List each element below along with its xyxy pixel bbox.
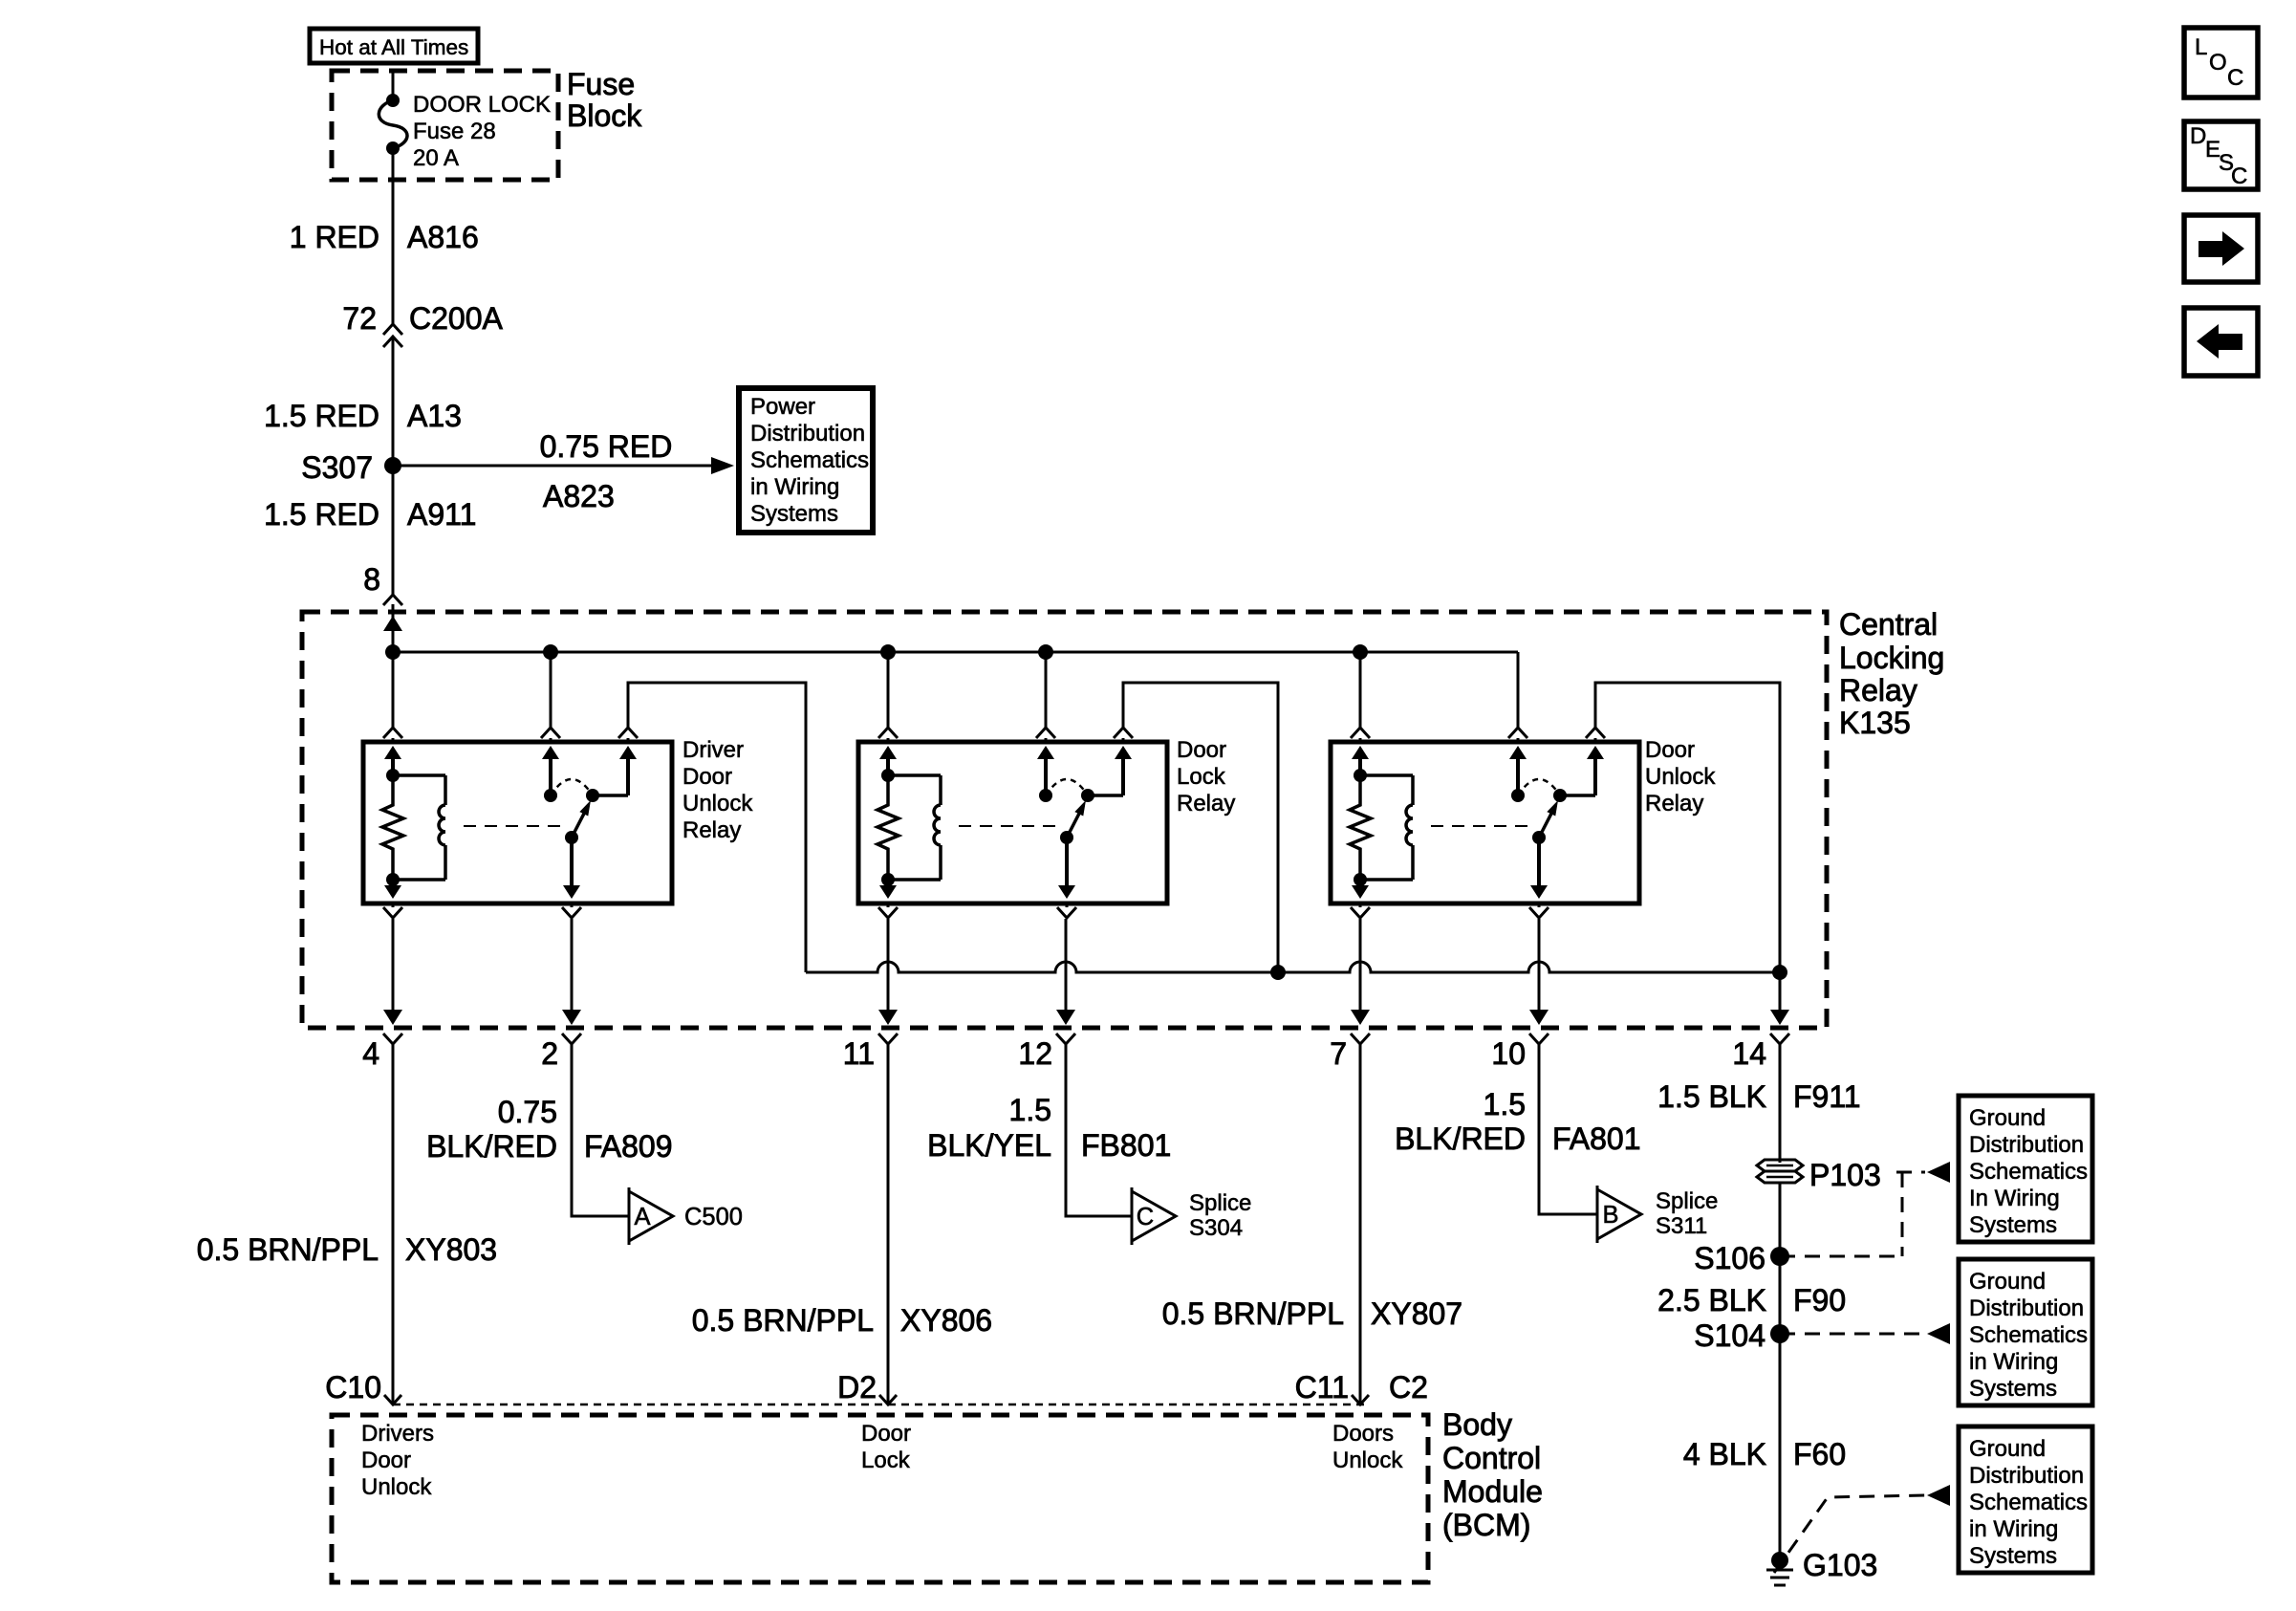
- svg-text:A13: A13: [407, 399, 462, 433]
- svg-text:2: 2: [541, 1036, 558, 1071]
- svg-text:in Wiring: in Wiring: [1969, 1516, 2058, 1542]
- wire entry arrow: [392, 604, 395, 652]
- switch arm: [565, 831, 578, 844]
- svg-text:BLK/YEL: BLK/YEL: [927, 1128, 1051, 1163]
- wire XY803 to BCM C10: [392, 1044, 395, 1404]
- svg-text:Body: Body: [1442, 1407, 1512, 1442]
- svg-text:11: 11: [843, 1036, 875, 1071]
- svg-text:D: D: [2190, 123, 2206, 149]
- coil: [393, 773, 445, 777]
- wire bottom rail (with hops): [806, 962, 1780, 972]
- switch common out: [1537, 838, 1541, 885]
- fuse F28 DOOR LOCK 20A: [386, 94, 400, 107]
- svg-text:A: A: [634, 1204, 650, 1230]
- svg-text:Distribution: Distribution: [1969, 1463, 2084, 1489]
- svg-text:Schematics: Schematics: [1969, 1490, 2088, 1515]
- svg-text:F90: F90: [1793, 1283, 1846, 1317]
- svg-text:L: L: [2195, 34, 2207, 60]
- svg-text:Relay: Relay: [1645, 791, 1703, 816]
- relay coil pin arrow: [879, 746, 897, 759]
- svg-text:1.5 RED: 1.5 RED: [264, 497, 379, 532]
- mechanical link (dashed): [959, 825, 1059, 827]
- svg-text:FA809: FA809: [584, 1129, 673, 1164]
- svg-text:Door: Door: [361, 1448, 411, 1473]
- svg-text:FB801: FB801: [1081, 1128, 1171, 1163]
- svg-text:C: C: [2231, 163, 2247, 189]
- svg-text:Ground: Ground: [1969, 1269, 2046, 1295]
- svg-text:K135: K135: [1839, 706, 1911, 740]
- svg-text:in Wiring: in Wiring: [750, 474, 839, 500]
- svg-text:Systems: Systems: [1969, 1212, 2057, 1238]
- svg-text:Lock: Lock: [861, 1448, 911, 1473]
- svg-text:Relay: Relay: [1839, 673, 1917, 708]
- svg-text:XY803: XY803: [405, 1232, 497, 1267]
- wire contact feed: [1045, 652, 1048, 728]
- relay box Driver Door: [363, 742, 672, 903]
- NO contact: [1081, 789, 1094, 802]
- svg-text:7: 7: [1330, 1036, 1347, 1071]
- svg-text:0.75 RED: 0.75 RED: [540, 429, 673, 464]
- svg-text:DOOR LOCK: DOOR LOCK: [413, 92, 551, 118]
- svg-text:Block: Block: [567, 98, 642, 133]
- stationary contact: [1509, 746, 1527, 759]
- svg-text:1.5: 1.5: [1484, 1087, 1526, 1121]
- coil ground pin arrow: [1358, 880, 1362, 885]
- svg-text:Systems: Systems: [1969, 1543, 2057, 1569]
- svg-text:8: 8: [363, 562, 380, 597]
- svg-text:BLK/RED: BLK/RED: [1395, 1121, 1526, 1156]
- svg-text:A816: A816: [407, 220, 479, 254]
- svg-text:Door: Door: [682, 764, 732, 790]
- svg-text:4: 4: [362, 1036, 379, 1071]
- NO contact: [1553, 789, 1567, 802]
- wire F60: [1779, 1334, 1782, 1560]
- svg-text:Distribution: Distribution: [750, 421, 865, 446]
- ground G103: [1771, 1552, 1788, 1569]
- power distribution schematics box: [739, 388, 873, 533]
- svg-text:C10: C10: [325, 1370, 381, 1404]
- mechanical link (dashed): [1431, 825, 1531, 827]
- svg-text:Systems: Systems: [750, 501, 838, 527]
- svg-text:0.5 BRN/PPL: 0.5 BRN/PPL: [1162, 1296, 1344, 1331]
- actuated position (dashed arc): [1518, 779, 1560, 795]
- svg-text:Unlock: Unlock: [1645, 764, 1716, 790]
- resistor: [1350, 775, 1371, 880]
- pin 11 of K135: [887, 919, 890, 1010]
- pin 4 of K135: [392, 919, 395, 1010]
- pin 12 of K135: [1065, 919, 1068, 1010]
- coil: [1360, 773, 1413, 777]
- svg-text:4 BLK: 4 BLK: [1683, 1437, 1766, 1471]
- svg-text:14: 14: [1732, 1036, 1766, 1071]
- wire FB801 to splice C: [1066, 1044, 1132, 1216]
- svg-text:C: C: [1137, 1204, 1154, 1230]
- nav box prev arrow: [2184, 308, 2258, 376]
- svg-text:C200A: C200A: [409, 301, 504, 336]
- svg-text:S104: S104: [1694, 1318, 1765, 1353]
- svg-text:C11: C11: [1295, 1370, 1349, 1404]
- coil ground pin arrow: [391, 880, 395, 885]
- wire coil feed: [1359, 652, 1362, 728]
- splice node S307: [384, 457, 401, 474]
- svg-text:B: B: [1602, 1202, 1618, 1229]
- label Hot at All Times: [310, 29, 478, 63]
- wire NO contact out: [1594, 683, 1597, 728]
- connector C200A pin 72: [383, 324, 402, 335]
- svg-text:20 A: 20 A: [413, 145, 459, 171]
- svg-text:Systems: Systems: [1969, 1376, 2057, 1402]
- svg-text:10: 10: [1491, 1036, 1526, 1071]
- wire A13: [392, 337, 395, 466]
- svg-text:Drivers: Drivers: [361, 1421, 434, 1447]
- svg-text:Relay: Relay: [682, 817, 741, 843]
- svg-text:1.5 BLK: 1.5 BLK: [1657, 1079, 1766, 1114]
- svg-text:In Wiring: In Wiring: [1969, 1186, 2060, 1211]
- wire relay1 NO to rail: [628, 683, 806, 972]
- resistor: [877, 775, 899, 880]
- svg-text:Ground: Ground: [1969, 1105, 2046, 1131]
- svg-text:Door: Door: [1645, 737, 1695, 763]
- svg-text:Schematics: Schematics: [750, 447, 869, 473]
- svg-text:Distribution: Distribution: [1969, 1295, 2084, 1321]
- svg-text:Door: Door: [861, 1421, 911, 1447]
- svg-text:Unlock: Unlock: [361, 1474, 432, 1500]
- svg-text:Splice: Splice: [1189, 1190, 1251, 1216]
- splice symbol C / S304: [1131, 1187, 1134, 1245]
- relay coil pin arrow: [384, 746, 401, 759]
- fuse block (dashed box): [332, 71, 558, 180]
- leader S104 to ground dist box 2: [1780, 1333, 1925, 1336]
- svg-text:F911: F911: [1793, 1079, 1861, 1114]
- ground distribution schematics box 1: [1959, 1096, 2092, 1242]
- svg-text:1.5 RED: 1.5 RED: [264, 399, 379, 433]
- wire relay3 NO to rail: [1595, 683, 1780, 972]
- splice symbol B / S311: [1596, 1186, 1599, 1243]
- svg-text:0.5 BRN/PPL: 0.5 BRN/PPL: [197, 1232, 379, 1267]
- nav box DESC: [2184, 121, 2258, 189]
- svg-text:Splice: Splice: [1656, 1188, 1718, 1214]
- svg-text:Fuse 28: Fuse 28: [413, 119, 496, 144]
- svg-text:Unlock: Unlock: [1332, 1448, 1403, 1473]
- nav box next arrow: [2184, 215, 2258, 282]
- coil ground pin arrow: [886, 880, 890, 885]
- svg-text:Door: Door: [1177, 737, 1226, 763]
- svg-text:XY807: XY807: [1371, 1296, 1462, 1331]
- svg-text:2.5 BLK: 2.5 BLK: [1657, 1283, 1766, 1317]
- wire contact feed: [1517, 652, 1520, 728]
- wire coil feed: [392, 652, 395, 728]
- connector row into BCM: [392, 1395, 394, 1404]
- svg-text:1 RED: 1 RED: [290, 220, 379, 254]
- leader G103 to ground dist box 3: [1774, 1495, 1925, 1573]
- svg-text:Power: Power: [750, 394, 815, 420]
- wire relay2 NO to rail: [1123, 683, 1278, 972]
- relay module K135 (dashed box): [302, 612, 1827, 1028]
- svg-text:Lock: Lock: [1177, 764, 1226, 790]
- switch arm: [1532, 831, 1546, 844]
- svg-text:Hot at All Times: Hot at All Times: [319, 35, 468, 59]
- svg-text:12: 12: [1018, 1036, 1052, 1071]
- svg-text:72: 72: [342, 301, 377, 336]
- pin 2 of K135: [571, 919, 574, 1010]
- leader P103/S106 to ground dist box 1: [1896, 1171, 1925, 1174]
- svg-text:Schematics: Schematics: [1969, 1322, 2088, 1348]
- relay coil pin arrow: [1352, 746, 1369, 759]
- wire FA809 to splice A: [572, 1044, 629, 1216]
- wire A816: [392, 148, 395, 324]
- relay box Door Lock: [858, 742, 1167, 903]
- pin 7 of K135: [1359, 919, 1362, 1010]
- pin 10 of K135: [1538, 919, 1541, 1010]
- svg-text:in Wiring: in Wiring: [1969, 1349, 2058, 1375]
- svg-text:C2: C2: [1389, 1370, 1428, 1404]
- svg-text:F60: F60: [1793, 1437, 1846, 1471]
- coil: [888, 773, 941, 777]
- switch common out: [570, 838, 574, 885]
- svg-text:(BCM): (BCM): [1442, 1508, 1530, 1542]
- svg-text:Distribution: Distribution: [1969, 1132, 2084, 1158]
- svg-text:Module: Module: [1442, 1474, 1543, 1509]
- svg-text:P103: P103: [1809, 1158, 1881, 1192]
- nav box LOC: [2184, 28, 2258, 98]
- svg-text:BLK/RED: BLK/RED: [426, 1129, 557, 1164]
- relay box Door Unlock: [1331, 742, 1639, 903]
- svg-text:C500: C500: [684, 1204, 743, 1230]
- svg-text:O: O: [2209, 50, 2227, 76]
- svg-text:Doors: Doors: [1332, 1421, 1394, 1447]
- svg-text:Control: Control: [1442, 1441, 1541, 1475]
- svg-text:Central: Central: [1839, 607, 1938, 642]
- svg-text:Ground: Ground: [1969, 1436, 2046, 1462]
- wire FA801 to splice B: [1539, 1044, 1597, 1214]
- svg-text:Relay: Relay: [1177, 791, 1235, 816]
- ground distribution schematics box 3: [1959, 1426, 2092, 1573]
- ground distribution schematics box 2: [1959, 1259, 2092, 1405]
- svg-text:A911: A911: [407, 497, 476, 532]
- svg-text:S311: S311: [1656, 1213, 1707, 1239]
- svg-text:C: C: [2227, 65, 2243, 91]
- actuated position (dashed arc): [551, 779, 593, 795]
- wire F911: [1779, 1044, 1782, 1163]
- splice node S106: [1770, 1247, 1789, 1266]
- mechanical link (dashed): [464, 825, 564, 827]
- wire XY806 to BCM D2: [887, 1044, 890, 1404]
- svg-text:Driver: Driver: [682, 737, 744, 763]
- wire XY807 to BCM C11: [1359, 1044, 1362, 1404]
- resistor: [382, 775, 403, 880]
- svg-text:XY806: XY806: [900, 1303, 992, 1338]
- wire coil feed: [887, 652, 890, 728]
- connector P103: [1757, 1160, 1803, 1171]
- svg-text:0.5 BRN/PPL: 0.5 BRN/PPL: [692, 1303, 874, 1338]
- wire into fuse: [392, 69, 395, 100]
- svg-text:S307: S307: [301, 450, 373, 485]
- svg-text:Unlock: Unlock: [682, 791, 753, 816]
- svg-text:G103: G103: [1803, 1548, 1877, 1582]
- switch common out: [1065, 838, 1069, 885]
- svg-text:S304: S304: [1189, 1215, 1243, 1241]
- pin 14 of K135: [1779, 972, 1782, 1010]
- svg-text:Schematics: Schematics: [1969, 1159, 2088, 1185]
- wire F90: [1779, 1256, 1782, 1334]
- splice node S104: [1770, 1324, 1789, 1343]
- NO contact: [586, 789, 599, 802]
- wire A911: [392, 466, 395, 595]
- svg-text:A823: A823: [543, 479, 615, 513]
- actuated position (dashed arc): [1046, 779, 1088, 795]
- wire A823 to power distribution: [393, 465, 715, 468]
- wire to S106: [1779, 1182, 1782, 1256]
- svg-text:1.5: 1.5: [1009, 1093, 1051, 1127]
- body control module (dashed box): [332, 1415, 1428, 1582]
- svg-text:S106: S106: [1694, 1241, 1765, 1275]
- stationary contact: [542, 746, 559, 759]
- svg-text:FA801: FA801: [1552, 1121, 1641, 1156]
- wire NO contact out: [1122, 683, 1125, 728]
- stationary contact: [1037, 746, 1054, 759]
- svg-text:Fuse: Fuse: [567, 67, 635, 101]
- svg-text:D2: D2: [837, 1370, 877, 1404]
- splice symbol A / C500: [628, 1187, 631, 1245]
- svg-text:Locking: Locking: [1839, 641, 1944, 675]
- svg-text:0.75: 0.75: [498, 1095, 557, 1129]
- wire contact feed: [550, 652, 552, 728]
- wire NO contact out: [627, 683, 630, 728]
- switch arm: [1060, 831, 1073, 844]
- bus node wire: [393, 651, 1518, 654]
